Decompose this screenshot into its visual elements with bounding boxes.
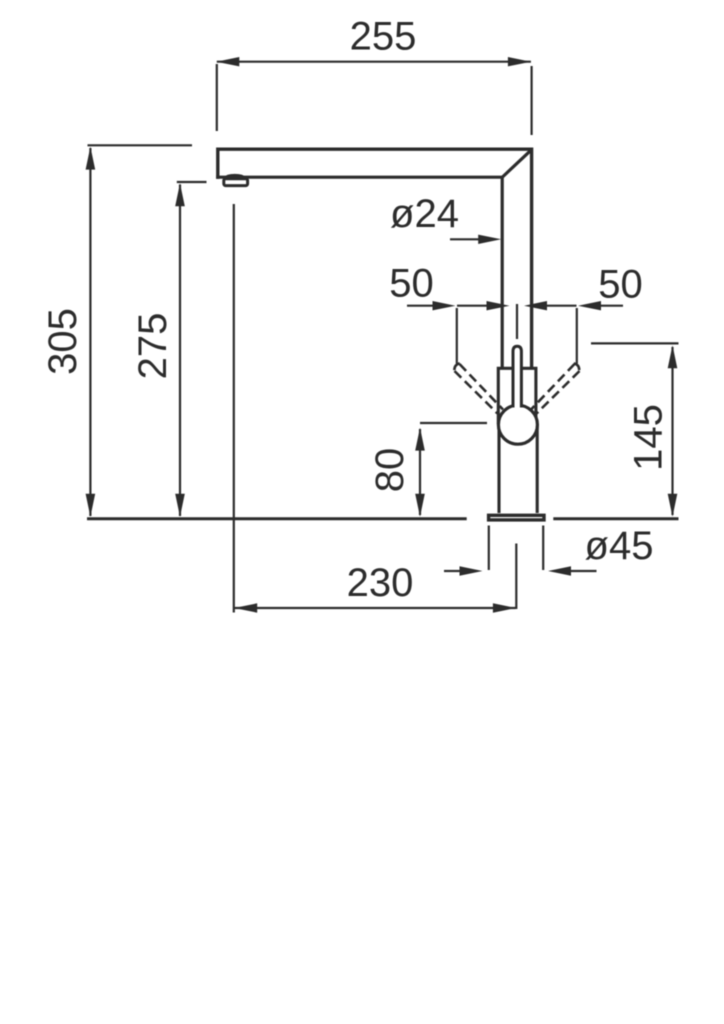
svg-text:275: 275	[131, 313, 175, 380]
svg-text:145: 145	[627, 404, 671, 471]
svg-text:ø45: ø45	[585, 524, 654, 568]
svg-text:230: 230	[347, 561, 414, 605]
svg-text:ø24: ø24	[390, 192, 459, 236]
svg-text:50: 50	[598, 263, 643, 307]
svg-text:255: 255	[350, 15, 417, 59]
svg-text:80: 80	[368, 448, 412, 493]
svg-text:50: 50	[389, 262, 434, 306]
svg-text:305: 305	[41, 308, 85, 375]
